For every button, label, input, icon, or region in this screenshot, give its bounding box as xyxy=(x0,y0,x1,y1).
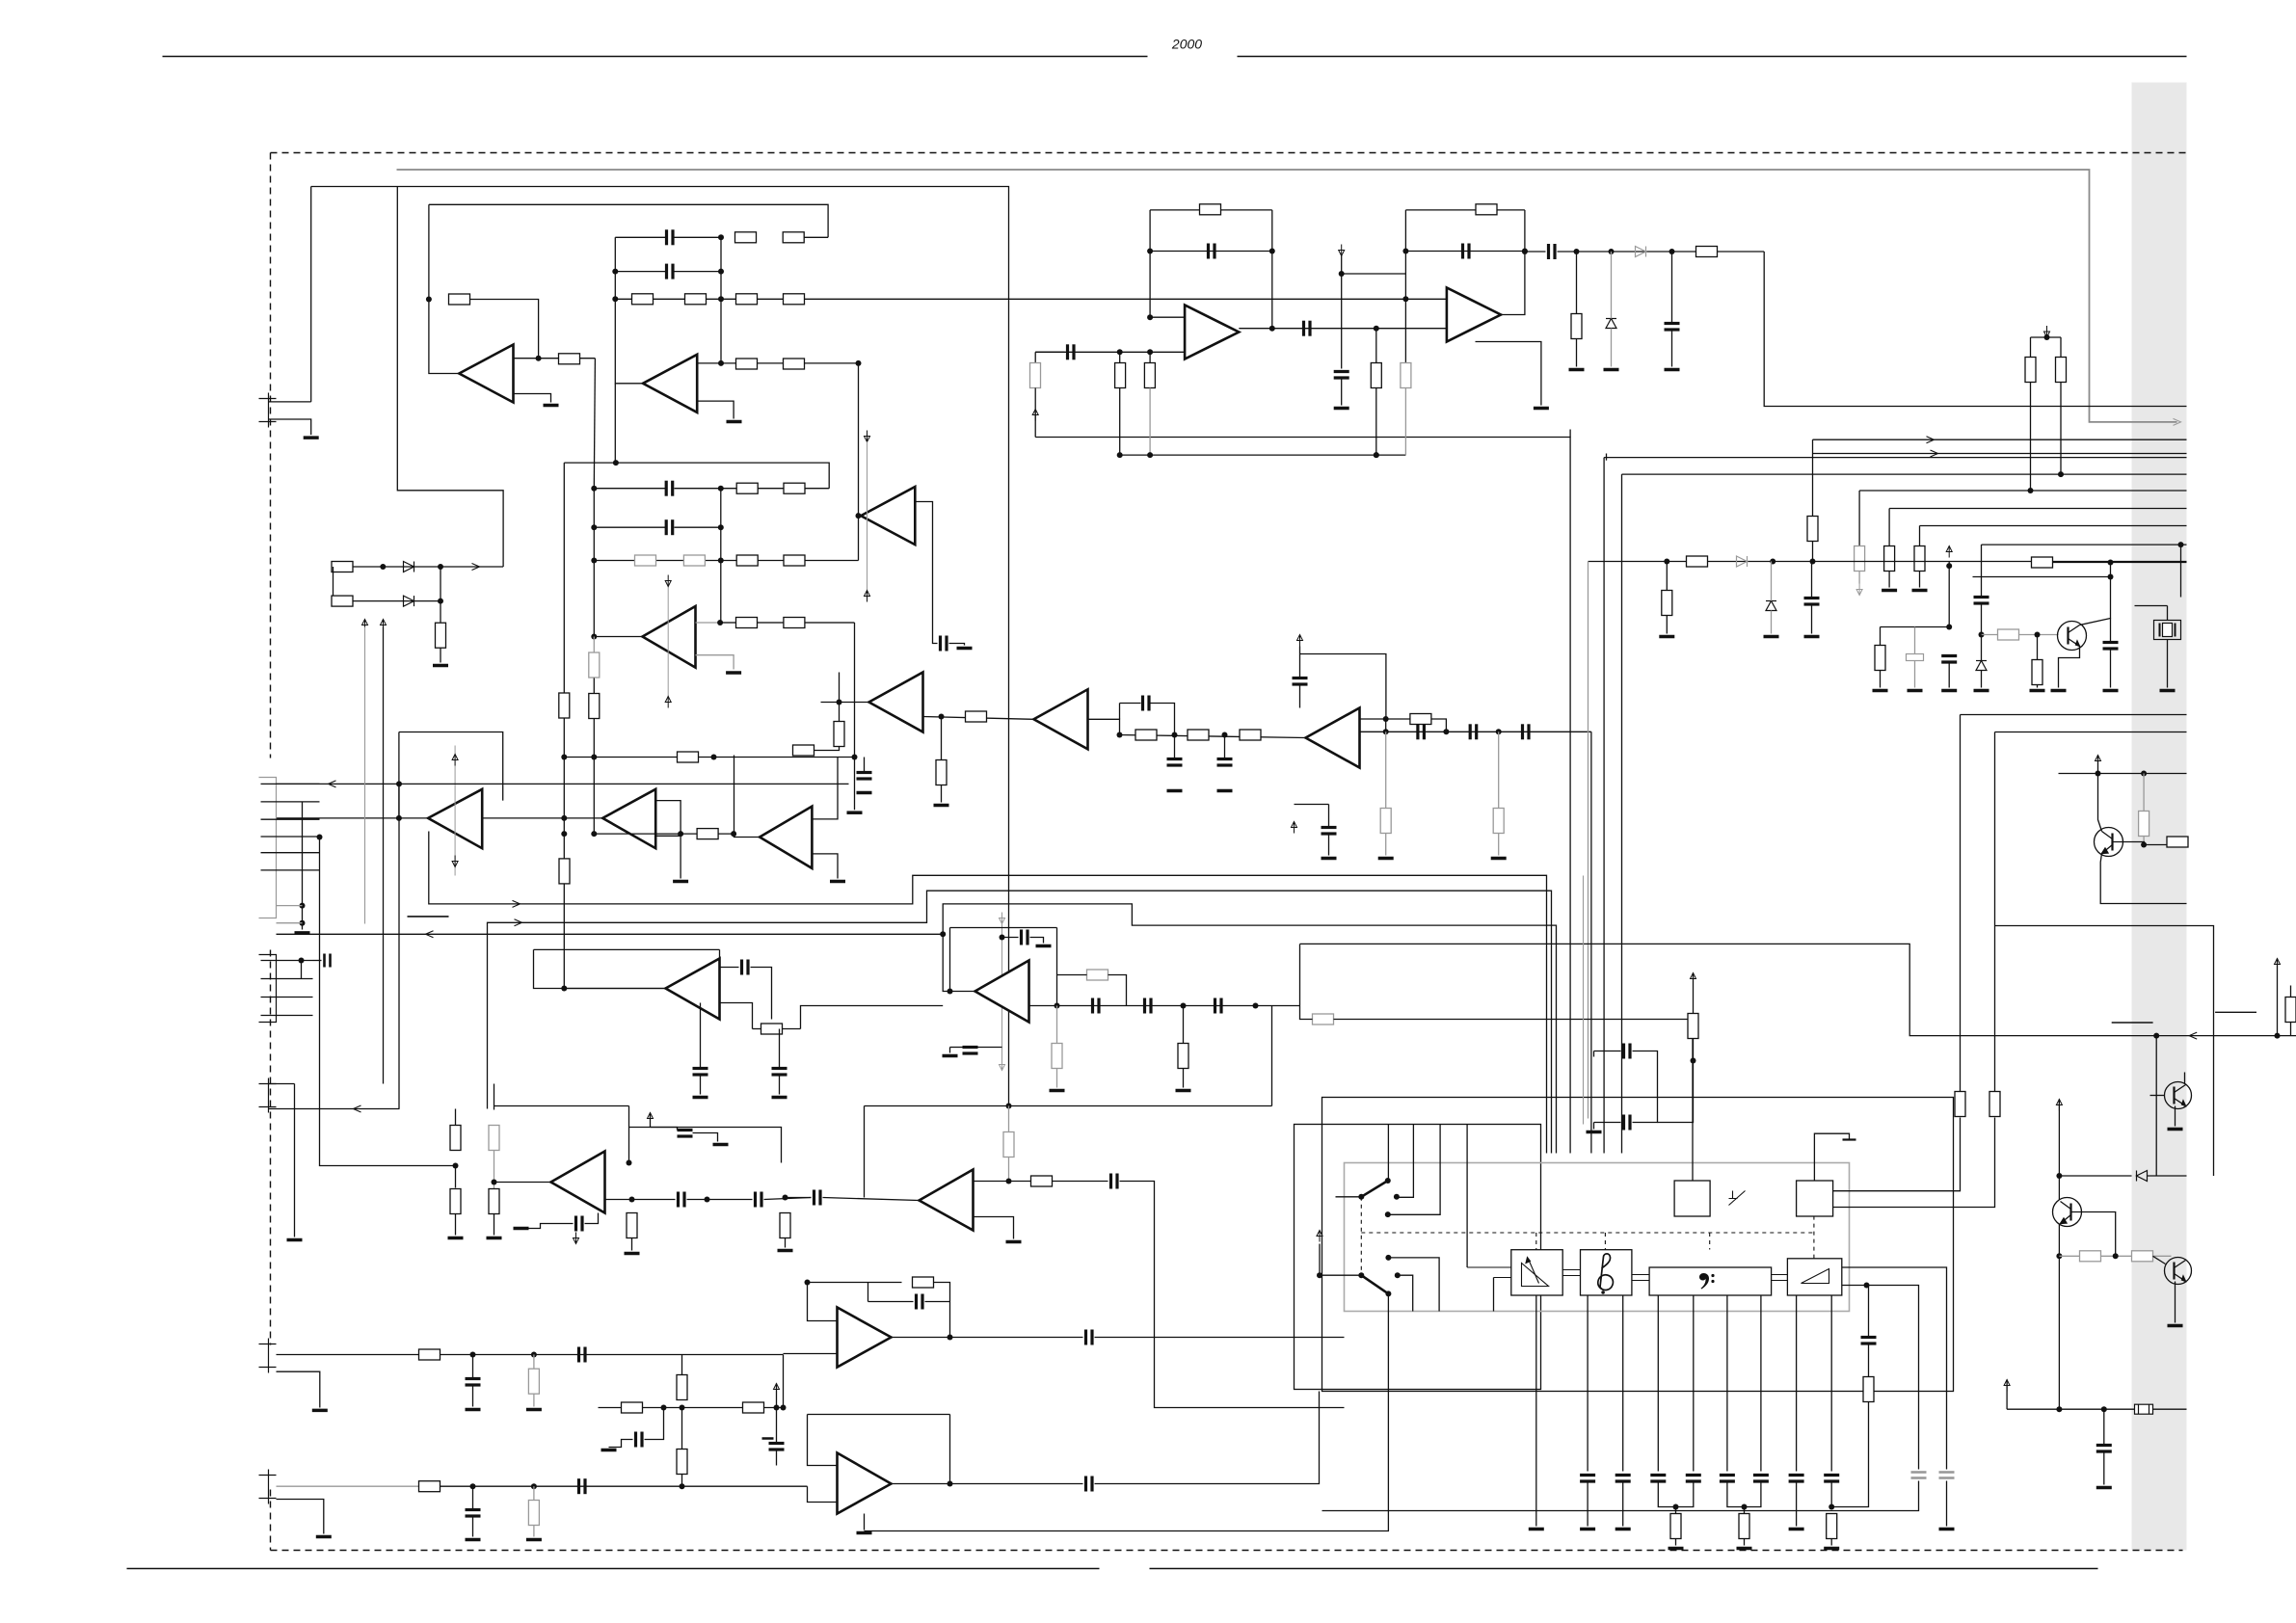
wire R77 dn xyxy=(1831,1402,1868,1507)
node U5 in xyxy=(396,815,402,821)
wire Q1 collector xyxy=(2080,562,2111,625)
wire join dn xyxy=(1744,1507,1746,1514)
ground C29 xyxy=(1036,945,1052,948)
capacitor C22 xyxy=(1941,656,1957,663)
diode D1 xyxy=(1737,556,1748,567)
node U13 out xyxy=(1055,1003,1060,1009)
op-amp U3 xyxy=(861,487,915,545)
wire U6 stub bot xyxy=(655,835,681,837)
ground X1 xyxy=(2160,689,2176,693)
node U10 in xyxy=(1147,314,1153,320)
resistor R42 xyxy=(1884,546,1895,572)
wire C28 g xyxy=(779,1076,781,1095)
ground C21 xyxy=(1908,689,1923,693)
resistor R8 xyxy=(784,294,805,305)
wire 582 xyxy=(1589,561,2187,563)
wire U10 sig in xyxy=(1035,351,1185,353)
wire R56 g xyxy=(1056,1069,1058,1088)
resistor R71 xyxy=(677,1375,687,1400)
node blk2 top xyxy=(613,460,619,466)
wire U5 out xyxy=(482,817,602,819)
wire R63 g xyxy=(785,1238,787,1248)
resistor R33 xyxy=(1493,809,1504,834)
node U2 out xyxy=(718,360,724,366)
wire R90 up xyxy=(2290,986,2292,998)
node U15 fb xyxy=(1006,1104,1012,1109)
bus wire 508 xyxy=(1859,490,2186,492)
capacitor C48 xyxy=(1086,1477,1093,1492)
wire C16 left xyxy=(1035,351,1064,353)
IC pin 6 xyxy=(1760,1295,1762,1472)
wire cap gnd 7 xyxy=(1796,1482,1798,1527)
wire U12 loop r xyxy=(719,949,721,958)
ground C20 xyxy=(1804,635,1820,639)
arrow 456 xyxy=(1927,437,1935,443)
diode D5 xyxy=(404,562,414,572)
wire vert 1666b xyxy=(1606,454,1608,461)
dashed board border top xyxy=(271,152,2186,154)
resistor R73 xyxy=(743,1402,764,1413)
node U13 sup xyxy=(1000,935,1005,941)
arrow S2 xyxy=(1317,1231,1322,1242)
node J3 xyxy=(299,958,305,964)
capacitor C56 xyxy=(1824,1476,1839,1482)
wire C42 g xyxy=(472,1517,474,1537)
input row 2b xyxy=(441,1485,808,1487)
node blk2 row1 r xyxy=(718,486,724,492)
node in1 a xyxy=(470,1352,476,1358)
wire R32 g xyxy=(1385,834,1387,856)
resistor R49 xyxy=(1998,629,2019,640)
resistor R32 xyxy=(1380,809,1391,834)
node U14 out xyxy=(629,1197,635,1203)
node 583 xyxy=(2108,560,2114,566)
ground R63 xyxy=(778,1249,793,1253)
wire C59 dn xyxy=(1322,1481,1919,1511)
wire vol out1 xyxy=(1842,1267,1947,1470)
resistor R39 xyxy=(1476,204,1497,215)
wire U16 in xyxy=(784,1353,838,1355)
bus bass-volume xyxy=(1772,1274,1788,1276)
arrow U14 xyxy=(574,1233,579,1244)
resistor R63 xyxy=(780,1213,790,1238)
arrow R35 xyxy=(1032,410,1038,421)
wire U10 out xyxy=(1239,328,1447,330)
node rowA a xyxy=(380,564,386,570)
wire R56 v xyxy=(1056,1006,1058,1044)
ground C37 xyxy=(713,1143,729,1147)
node U15 fb2 xyxy=(1006,1179,1012,1184)
connector J3 pin 3 xyxy=(261,997,313,998)
wire C60 r xyxy=(1633,1051,1658,1084)
resistor R82 xyxy=(332,596,353,606)
wire Q4 base xyxy=(2153,1256,2166,1264)
wire T2 rail left xyxy=(615,237,643,383)
wire U6b out bot xyxy=(812,854,838,879)
op-amp U17 xyxy=(838,1453,892,1514)
supply arrow U5 top xyxy=(452,755,458,766)
transistor Q2 mirrored xyxy=(2095,828,2123,857)
polarity dash mark xyxy=(408,916,449,918)
wire U15 loop l xyxy=(864,1106,866,1198)
wire v1628 ext xyxy=(1569,430,1571,438)
resistor R26 xyxy=(936,760,947,785)
wire C24 g xyxy=(2110,648,2112,688)
capacitor C28 xyxy=(772,1069,788,1076)
node U15 in xyxy=(783,1195,788,1201)
wire U9 out bot xyxy=(1360,731,1591,732)
arrow U17 supply xyxy=(774,1384,780,1396)
wire C64 v xyxy=(1671,252,1673,324)
wire R90 dn xyxy=(2290,1023,2292,1036)
zener D2 xyxy=(1766,601,1776,611)
bus wire 563 drop xyxy=(1981,545,1983,596)
resistor R62 xyxy=(627,1213,637,1238)
node U7 out xyxy=(939,714,945,720)
wire U14 loop xyxy=(494,1105,629,1107)
resistor R79 xyxy=(2080,1251,2101,1262)
node U12 rail xyxy=(561,986,567,992)
ground R61 xyxy=(487,1237,502,1240)
wire blk2 top xyxy=(564,463,829,489)
wire R70 l xyxy=(599,1407,622,1409)
wire R53 l xyxy=(753,1028,761,1030)
switch link dashed xyxy=(1360,1197,1362,1275)
arrow fuse xyxy=(2004,1380,2010,1392)
wire U16 fb in xyxy=(808,1283,838,1321)
wire J3 link xyxy=(301,961,303,979)
supply line U4 xyxy=(667,587,669,697)
wire T1 loop outer xyxy=(429,204,828,237)
wire v 331 xyxy=(320,838,456,1166)
wire col512 xyxy=(494,1084,495,1110)
wire R54 r xyxy=(1108,975,1127,1006)
diode D7 xyxy=(1636,247,1646,257)
resistor R17 xyxy=(589,652,600,678)
wire U11 loop cap xyxy=(1405,251,1525,253)
wire U14 loop r xyxy=(628,1106,630,1163)
resistor R90 xyxy=(2285,998,2296,1023)
wire R38 dn xyxy=(1375,388,1377,456)
bass clef icon xyxy=(1699,1273,1715,1290)
arrow J2 xyxy=(329,781,336,787)
resistor R10 xyxy=(784,359,805,369)
wire U1 out drop xyxy=(594,359,595,489)
capacitor C55 xyxy=(1789,1476,1804,1482)
wire 650 xyxy=(1881,626,1950,628)
capacitor C47 xyxy=(769,1444,785,1450)
wire X1 v xyxy=(2167,640,2169,688)
resistor R23 xyxy=(678,752,699,762)
wire C3 gnd xyxy=(949,644,965,646)
node r260 a xyxy=(1574,249,1580,254)
wire J6 gnd xyxy=(277,1500,324,1534)
wire row864 ext xyxy=(733,834,734,837)
resistor R41 xyxy=(1855,546,1865,572)
trimmer capacitor C21 xyxy=(1907,654,1924,661)
wire C26 r xyxy=(751,968,772,1020)
treble clef icon xyxy=(1598,1254,1614,1294)
ground C42 xyxy=(466,1538,481,1542)
arrow rowA xyxy=(472,564,480,571)
connector J1 upper xyxy=(259,393,277,428)
bus wire 545 xyxy=(1920,525,2187,527)
wire 1219b xyxy=(2148,1175,2187,1177)
wire R78 dn xyxy=(1693,1039,1695,1061)
node C18 xyxy=(1339,271,1345,277)
wire R25 up xyxy=(839,703,841,722)
wire C45 lv xyxy=(868,1283,869,1302)
supply line U3 xyxy=(867,442,868,591)
node c35 xyxy=(705,1197,710,1203)
balance meter icon xyxy=(1522,1258,1549,1287)
wire R53 r xyxy=(783,1028,801,1030)
wire R83 g xyxy=(440,649,441,663)
capacitor C39 xyxy=(1111,1174,1118,1189)
resistor R65 xyxy=(1031,1176,1053,1186)
wire R69 v xyxy=(533,1486,535,1500)
wire C28 v xyxy=(779,1029,781,1069)
wire Q2 supply xyxy=(2097,756,2099,774)
node mid c xyxy=(680,1483,685,1489)
bus wire 508 drop xyxy=(1858,491,1860,546)
wire fuse row xyxy=(2007,1408,2134,1410)
wire U13 loop l xyxy=(949,928,951,992)
ground C22 xyxy=(1941,689,1957,693)
wire U11 out xyxy=(1501,210,1525,315)
wire J2 v1 xyxy=(277,783,849,785)
resistor R70 xyxy=(622,1402,643,1413)
node R18 bot xyxy=(591,831,597,837)
wire R55 r xyxy=(1334,1019,1694,1021)
wire U17 out2 xyxy=(1095,1392,1320,1484)
node cap b xyxy=(1496,729,1502,734)
wire row260 xyxy=(1525,251,1546,253)
bus low C xyxy=(277,904,1557,1154)
wire U4 out xyxy=(696,622,855,624)
capacitor C51 xyxy=(1650,1476,1666,1482)
arrow R86 xyxy=(2044,326,2050,337)
wire J1 stub a xyxy=(269,401,311,403)
IC dashed control bus xyxy=(1361,1232,1814,1234)
wire D2 v xyxy=(1771,562,1773,601)
wire cap gnd xyxy=(1587,1482,1589,1527)
arrow supply a xyxy=(362,620,368,631)
capacitor C4 xyxy=(666,481,673,496)
wire Q2 base r xyxy=(2144,844,2166,846)
wire J4 stub b xyxy=(269,1108,400,1110)
wire R35 dn xyxy=(1034,388,1036,438)
wire R33 g xyxy=(1498,834,1500,856)
ground R43 xyxy=(1912,589,1928,593)
resistor R12 xyxy=(784,483,805,493)
node row2 r xyxy=(718,269,724,275)
level dash mark xyxy=(2112,1022,2153,1024)
resistor R15 xyxy=(736,555,758,566)
wire U7 out xyxy=(923,717,1034,720)
wire R51 dn xyxy=(2143,837,2145,845)
wire T2 row1 right xyxy=(675,236,722,238)
bus wire 474 drop xyxy=(1603,458,1605,1154)
wire U17 loop l xyxy=(808,1415,838,1466)
wire stub 939 xyxy=(277,905,303,907)
wire U4 gnd stub xyxy=(696,655,734,670)
capacitor C27 xyxy=(693,1069,708,1076)
wire standby top xyxy=(1814,1133,1849,1181)
resistor R4 xyxy=(783,232,804,243)
resistor R31 xyxy=(1410,714,1431,725)
resistor R76 xyxy=(1989,1092,2000,1117)
node Q3 e2 xyxy=(2056,1253,2062,1259)
ground R56 xyxy=(1050,1089,1065,1093)
arrow R78 xyxy=(1691,973,1696,985)
wire Q5 base xyxy=(2150,1095,2165,1097)
node row477 c17 xyxy=(1374,452,1379,458)
ground Q5 xyxy=(2168,1128,2183,1131)
wire 960 box xyxy=(1995,926,2214,1177)
wire C60 l xyxy=(1594,1051,1621,1052)
resistor R28 xyxy=(1135,730,1157,740)
capacitor C13 xyxy=(1523,724,1530,739)
wire U10 loop top xyxy=(1150,209,1272,211)
supply line U13 xyxy=(1001,924,1003,1066)
wire v 313 xyxy=(302,802,304,930)
resistor R35 xyxy=(1030,363,1041,388)
node U11 row xyxy=(1522,249,1528,254)
supply line U5 xyxy=(454,746,456,876)
node U5 out xyxy=(561,815,567,821)
capacitor C30 xyxy=(1093,998,1100,1014)
capacitor C43 xyxy=(579,1478,586,1494)
wire C10 up xyxy=(1299,647,1301,678)
node 2022 xyxy=(1946,563,1952,569)
ground R69 xyxy=(526,1538,542,1542)
capacitor C53 xyxy=(1720,1476,1735,1482)
IC box treble xyxy=(1581,1250,1632,1295)
node vol2 xyxy=(1864,1283,1870,1289)
wire C33 l xyxy=(950,1047,963,1049)
wire X1 top xyxy=(2167,606,2169,621)
wire fuse v xyxy=(2006,1380,2008,1410)
arrow 2022 xyxy=(1946,546,1952,558)
node v313 b xyxy=(300,920,306,926)
wire join dn xyxy=(1675,1507,1677,1514)
ground C61 xyxy=(1587,1131,1602,1134)
wire R37 dn xyxy=(1149,388,1151,456)
arrow bus A xyxy=(513,900,521,907)
ground U6b xyxy=(830,880,845,884)
capacitor C23 xyxy=(1974,598,1989,604)
arrow 470 xyxy=(1931,450,1938,457)
wire left tall xyxy=(397,187,503,568)
resistor R54 xyxy=(1087,970,1108,980)
wire X1 link xyxy=(2135,605,2168,607)
resistor R20 xyxy=(784,618,805,628)
wire C29 r xyxy=(1030,938,1044,944)
wire U11 gnd stub xyxy=(1476,342,1541,406)
IC dashed drop xyxy=(1535,1233,1537,1250)
node row785 c xyxy=(711,755,717,760)
wire R62 g xyxy=(631,1238,633,1251)
wire Q5 c xyxy=(2184,1073,2186,1084)
wire C62 g xyxy=(2103,1451,2105,1485)
node fuse a xyxy=(2056,1406,2062,1412)
wire cap join xyxy=(1658,1482,1694,1507)
node row864 r xyxy=(731,831,736,837)
shaded bus band right xyxy=(2132,83,2187,1551)
wire C57 v xyxy=(1868,1286,1870,1338)
IC outer box xyxy=(1322,1098,1954,1392)
wire row477 xyxy=(1120,454,1406,456)
capacitor C16 xyxy=(1068,344,1075,359)
IC pin 1 xyxy=(1587,1295,1589,1472)
wire drop 1427 xyxy=(1375,329,1377,363)
wire T2 row2 left xyxy=(615,271,665,273)
wire join3 g xyxy=(1830,1539,1832,1546)
arrow R41 xyxy=(1856,584,1862,596)
wire R46 g xyxy=(1666,616,1668,634)
resistor Rj xyxy=(1739,1514,1749,1539)
ground J1 xyxy=(304,436,319,439)
wire col512b xyxy=(494,1151,495,1189)
node Q3 c xyxy=(2056,1173,2062,1179)
wire U10 loop right xyxy=(1271,210,1273,329)
ground C28 xyxy=(772,1096,788,1100)
wire C7 r xyxy=(1151,704,1175,735)
wire C45 l xyxy=(868,1301,914,1303)
ground U6 xyxy=(673,880,688,884)
IC pin 4 xyxy=(1693,1295,1695,1472)
IC pin 8 xyxy=(1830,1295,1832,1472)
connector J2 pin 5 xyxy=(261,852,320,854)
capacitor C64 xyxy=(1665,324,1680,331)
bus wire 420 xyxy=(1764,252,2186,407)
wire U1 gnd stub xyxy=(514,394,551,403)
wire blk2 row2 xyxy=(594,526,665,528)
zener D8 xyxy=(1606,319,1616,329)
wire T2 row3 xyxy=(615,298,1405,300)
wire cap join xyxy=(1727,1482,1761,1507)
wire U15 loop r xyxy=(1271,1006,1273,1106)
wire U15 out2 xyxy=(1053,1181,1108,1183)
node U4 in xyxy=(591,634,597,640)
ground R33 xyxy=(1491,857,1507,861)
bus 979 h xyxy=(1300,944,2296,1035)
mute slash symbol xyxy=(1729,1191,1746,1206)
wire U16 out2 xyxy=(1095,1337,1345,1339)
node cap join xyxy=(1742,1504,1748,1510)
node v331 xyxy=(317,835,323,840)
wire U10 cap row xyxy=(1150,251,1272,253)
wire C40 g xyxy=(472,1386,474,1407)
wire R50 g xyxy=(2037,685,2039,688)
node fuse b xyxy=(2101,1406,2107,1412)
supply arrow C18 xyxy=(1339,245,1345,256)
wire R26 dn xyxy=(941,785,943,803)
wire U12 loop l xyxy=(534,949,666,988)
ground U4 xyxy=(726,671,741,675)
wire C14 up xyxy=(1328,805,1330,828)
wire R40 dn xyxy=(1404,388,1406,456)
connector J6 xyxy=(259,1470,277,1504)
node blk2 row2 l xyxy=(591,524,597,530)
wire U11 loop left xyxy=(1404,210,1406,299)
node U17 sup xyxy=(774,1405,780,1411)
wire Q3 supv xyxy=(2058,1100,2060,1200)
node U13 tap xyxy=(940,931,946,937)
node blk2 row3 r xyxy=(718,558,724,564)
wire S1 c1 xyxy=(1397,1125,1413,1198)
